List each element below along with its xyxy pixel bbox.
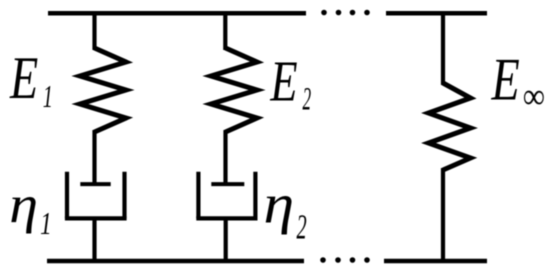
- wire: branch 1 middle (spring to dashpot piston): [92, 130, 96, 184]
- svg-text:E: E: [9, 44, 38, 111]
- top ellipsis dots: [321, 10, 370, 16]
- bottom rigid bar right segment: [384, 259, 487, 264]
- svg-text:E: E: [270, 50, 298, 114]
- svg-text:2: 2: [303, 81, 312, 117]
- label E1: [9, 44, 53, 114]
- label eta1: [9, 175, 51, 241]
- label E-infinity: [491, 45, 545, 116]
- dashpot eta2 cylinder bottom: [196, 216, 257, 220]
- dashpot eta1 cylinder bottom: [65, 216, 127, 220]
- svg-text:E: E: [491, 45, 520, 112]
- svg-text:η: η: [264, 172, 295, 235]
- dashpot eta1 piston plate: [80, 182, 110, 186]
- dashpot eta2 cylinder left wall: [196, 172, 200, 219]
- dashpot eta1 cylinder left wall: [65, 172, 69, 219]
- bottom ellipsis dots: [320, 257, 370, 263]
- wire: branch 1 bottom: [92, 218, 96, 262]
- wire: branch 2 middle (spring to dashpot piston): [223, 130, 227, 184]
- svg-text:1: 1: [40, 206, 52, 241]
- wire: branch 2 top: [223, 11, 227, 50]
- spring E2: [211, 48, 257, 132]
- wire: branch 2 bottom: [224, 218, 228, 262]
- bottom rigid bar left segment: [47, 259, 304, 264]
- svg-text:∞: ∞: [523, 76, 545, 116]
- dashpot eta2 cylinder right wall: [253, 172, 257, 219]
- dashpot eta2 piston plate: [211, 182, 244, 186]
- svg-text:2: 2: [297, 209, 307, 247]
- dashpot eta1 cylinder right wall: [122, 172, 126, 219]
- spring E-infinity: [429, 83, 471, 170]
- svg-text:1: 1: [43, 79, 53, 115]
- top rigid bar left segment: [48, 11, 306, 16]
- spring E1: [80, 48, 126, 132]
- wire: branch 1 top: [92, 11, 96, 50]
- label E2: [270, 50, 312, 117]
- svg-text:η: η: [9, 175, 38, 234]
- label eta2: [264, 172, 307, 247]
- wire: branch 3 bottom: [441, 168, 445, 262]
- top rigid bar right segment: [386, 11, 487, 16]
- wire: branch 3 top: [441, 11, 445, 85]
